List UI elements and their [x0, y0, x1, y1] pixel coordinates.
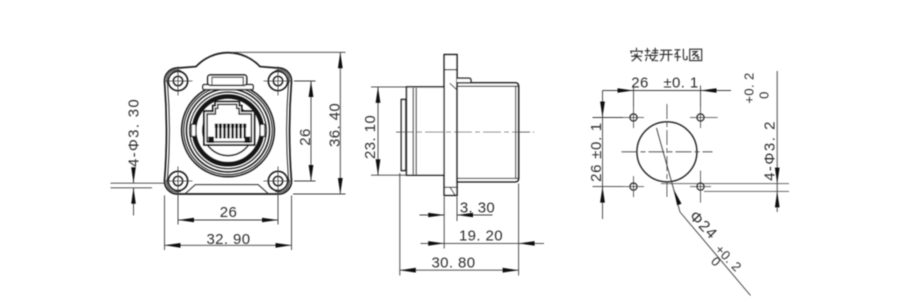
bolt hole top-left (front view) [164, 67, 193, 96]
dimension 3.30 (side) [420, 197, 496, 249]
circle centerlines [622, 104, 713, 200]
side view bayonet tab [457, 78, 471, 86]
svg-text:36. 40: 36. 40 [326, 103, 343, 147]
svg-text:26: 26 [631, 75, 649, 92]
side view centerline [396, 131, 534, 133]
bolt hole bottom-right (front view) [264, 167, 293, 196]
svg-text:19. 20: 19. 20 [459, 228, 503, 245]
panel hole bottom-right [690, 171, 711, 203]
svg-text:0: 0 [757, 91, 772, 99]
panel hole bottom-left [623, 176, 644, 197]
svg-text:32. 90: 32. 90 [206, 231, 250, 248]
ring side key notches [191, 124, 264, 136]
svg-text:26: 26 [297, 128, 314, 146]
dimension 26 horizontal (front) [178, 196, 278, 225]
dimension 30.80 (side) [400, 173, 519, 276]
panel hole top-left [623, 107, 644, 128]
svg-text:30. 80: 30. 80 [431, 255, 475, 272]
flange outline (front view) [164, 53, 291, 194]
side view front tip plate [401, 100, 405, 171]
svg-text:23. 10: 23. 10 [362, 115, 379, 159]
dimension 26 +-0.1 top (cutout) [603, 75, 732, 108]
label 4-03.30 (front) [111, 98, 153, 216]
dimension 4-03.2 +0.2/0 right (cutout) [661, 71, 789, 212]
side view flange plate [444, 55, 457, 196]
svg-text:26 ±0. 1: 26 ±0. 1 [588, 122, 605, 182]
svg-text:+0. 2: +0. 2 [742, 72, 757, 103]
extended centerline of bottom-left hole [111, 182, 167, 184]
flange bottom chamfer trapezoid [185, 185, 269, 194]
svg-text:3. 30: 3. 30 [460, 200, 495, 217]
top keying tab [203, 75, 253, 90]
dimension 26 +-0.1 left (cutout) [588, 91, 623, 220]
panel hole top-right [690, 107, 718, 128]
svg-text:4-Φ3. 30: 4-Φ3. 30 [126, 98, 143, 167]
panel cut-out circle 024 [637, 122, 697, 182]
dimension 36.40 (front) [232, 52, 346, 194]
dimension 32.90 (front) [165, 196, 292, 251]
dimension 23.10 (side) [362, 87, 407, 175]
title: mounting hole diagram (CJK strokes) [631, 48, 702, 61]
dimension 26 vertical (front) [294, 81, 316, 181]
side view rear body [457, 83, 519, 182]
dimension 19.20 (side) [421, 228, 545, 246]
svg-text:26: 26 [220, 204, 238, 221]
flange inner chamfer line [275, 70, 289, 192]
side view front cylinder [407, 87, 445, 175]
dimension 024 +0.2/0 diagonal leader [657, 128, 751, 296]
bolt hole top-right (front view) [264, 67, 293, 96]
svg-text:4-Φ3. 2: 4-Φ3. 2 [762, 120, 779, 181]
RJ45 jack face [204, 102, 255, 145]
bolt hole bottom-left (front view) [164, 167, 193, 196]
locking ring circles [182, 84, 275, 177]
svg-text:±0. 1: ±0. 1 [663, 75, 698, 92]
